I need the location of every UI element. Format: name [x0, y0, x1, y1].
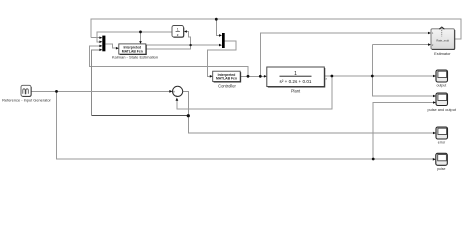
junction dot pulse rail	[372, 158, 375, 161]
wire controller output tap to mux input 3 (long u line)	[90, 46, 248, 76]
arrowhead into scope error	[433, 132, 436, 135]
block scope pulse and output	[436, 93, 448, 106]
wire controller output tap up to estimator input 1	[260, 33, 428, 76]
arrowhead into controller mux input 2	[219, 44, 222, 47]
block unit delay (mirrored)	[172, 26, 184, 38]
arrowhead into estimator input 2	[428, 43, 431, 46]
junction dot controller output tap 1	[247, 75, 250, 78]
svg-text:Kalman - State Estimation: Kalman - State Estimation	[112, 55, 158, 60]
svg-text:1: 1	[177, 27, 179, 31]
wire unit delay output to mux input 2	[97, 32, 172, 42]
wire input generator tap down to pulse rail	[57, 91, 434, 159]
arrowhead into mux input 4	[99, 49, 102, 52]
junction dot plant output estimator branch	[371, 75, 374, 78]
arrowhead into kalman input	[116, 47, 119, 50]
wire plant output branch to estimator input 2 and scope pulse-and-output in1	[372, 45, 433, 96]
junction dot controller output tap 2	[259, 75, 262, 78]
wire top rail (estimator output feedback)	[91, 19, 461, 39]
block estimator subsystem	[431, 27, 455, 50]
arrowhead into scope pulse	[433, 158, 436, 161]
wire input generator to sum	[31, 90, 170, 92]
svg-text:output: output	[437, 84, 447, 88]
arrowhead into controller mux input 1	[219, 34, 222, 37]
svg-text:z: z	[177, 33, 179, 37]
wire error tap vertical up to mux input 4	[91, 50, 100, 116]
wire sum output down to error line and error scope	[183, 91, 434, 133]
junction dot input generator	[55, 90, 58, 93]
arrowhead into scope pulse-and-output in2	[433, 101, 436, 104]
block plant	[267, 67, 325, 87]
arrowhead into mux input 1	[99, 36, 102, 39]
wire mux output into kalman	[105, 44, 116, 48]
wire controller output to plant	[240, 75, 264, 77]
svg-text:error: error	[438, 141, 446, 145]
junction dot plant output feedback	[331, 75, 334, 78]
arrowhead into mux input 3	[99, 45, 102, 48]
block kalman interpreted matlab fcn	[119, 44, 147, 55]
arrowhead into plant	[264, 75, 267, 78]
svg-text:Plant: Plant	[291, 88, 301, 93]
wire kalman output lower branch	[146, 32, 191, 49]
wire controller mux output wrap into controller	[207, 41, 236, 76]
wire kalman trigger drop	[140, 32, 142, 43]
junction dot kalman out branch	[189, 44, 191, 46]
junction dot delay line to kalman trigger	[139, 31, 142, 34]
svg-text:Controller: Controller	[218, 84, 236, 89]
wire mux input 1 stub	[91, 37, 100, 39]
arrowhead into estimator input 1	[428, 32, 431, 35]
wire plant output feedback down-left-up to sum minus	[177, 76, 332, 109]
arrowhead into sum bottom	[176, 98, 179, 101]
arrowhead into scope pulse-and-output in1	[433, 95, 436, 98]
wire pulse rail tap up to scope pulse-and-output in2	[373, 103, 434, 160]
svg-text:s² + 0.2s + 0.01: s² + 0.2s + 0.01	[280, 79, 312, 84]
svg-text:MATLAB Fcn: MATLAB Fcn	[216, 77, 237, 81]
junction dot error line	[187, 114, 190, 117]
svg-text:pulse and output: pulse and output	[427, 108, 456, 112]
block scope error	[436, 127, 448, 139]
arrowhead kalman trigger down	[139, 41, 142, 44]
svg-text:MATLAB Fcn: MATLAB Fcn	[122, 49, 143, 53]
svg-text:Rate_mult: Rate_mult	[436, 39, 449, 43]
arrowhead into mux input 2	[99, 41, 102, 44]
arrowhead into unit delay right side	[184, 30, 187, 33]
svg-text:Estimator: Estimator	[434, 51, 451, 56]
mux kalman (black bar)	[102, 36, 105, 52]
block reference input generator	[21, 85, 31, 96]
arrowhead into scope output	[433, 75, 436, 78]
block controller	[213, 71, 241, 82]
block sum	[173, 86, 183, 98]
wire kalman output upper branch to controller mux input 2	[146, 44, 219, 46]
mux controller (black bar)	[222, 33, 225, 48]
wire rail tap to controller mux input 1	[216, 19, 219, 35]
block scope pulse	[436, 153, 448, 165]
wire error tap to mux input 4 (dark horizontal)	[91, 115, 188, 117]
block scope output	[436, 70, 448, 82]
arrowhead into sum left	[169, 90, 172, 93]
svg-text:pulse: pulse	[437, 167, 445, 171]
arrowhead into controller	[210, 75, 213, 78]
svg-text:Reference - Input Generator: Reference - Input Generator	[2, 97, 51, 102]
wire plant output to scope output	[324, 75, 433, 77]
junction dot top rail	[215, 18, 218, 21]
